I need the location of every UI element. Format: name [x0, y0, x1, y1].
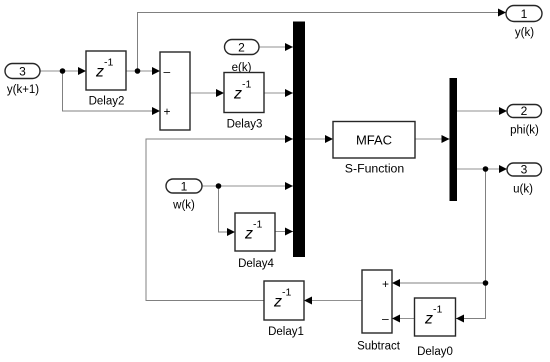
arrowhead into demux [442, 135, 450, 143]
svg-text:w(k): w(k) [172, 200, 195, 212]
svg-text:1: 1 [181, 180, 188, 194]
arrowhead into Delay3 [216, 89, 224, 97]
arrowhead into Delay1 [304, 297, 312, 305]
wire sum output to Delay3 [190, 92, 224, 94]
output port 2 [507, 104, 542, 137]
svg-text:Delay2: Delay2 [89, 96, 125, 108]
wire Delay0 output to Subtract minus input [392, 318, 415, 320]
arrowhead into mux input 2 [285, 89, 293, 97]
wire feedback from Delay1 output up to mux [146, 139, 293, 301]
svg-text:z: z [273, 294, 282, 311]
wire Delay4 output to mux [275, 231, 293, 233]
wire top feed from node B to output port 1 [138, 13, 507, 72]
svg-text:z: z [244, 226, 253, 243]
wire Delay3 output to mux [264, 92, 293, 94]
output port 1 [506, 6, 542, 40]
arrowhead into mux input 1 [285, 43, 293, 51]
svg-text:MFAC: MFAC [356, 133, 392, 148]
unit delay Delay2 [86, 51, 126, 108]
output port 3 [507, 163, 542, 196]
node C junction dot [216, 183, 222, 189]
svg-text:–: – [164, 65, 171, 79]
svg-text:Delay1: Delay1 [268, 326, 304, 338]
arrowhead into Subtract minus [392, 315, 400, 323]
wire input 2 to mux [259, 46, 293, 48]
node A junction dot [60, 68, 66, 74]
svg-text:-1: -1 [282, 287, 291, 299]
svg-text:-1: -1 [104, 57, 113, 69]
unit delay Delay0 [415, 298, 456, 358]
wire demux to output port 3 [457, 168, 507, 170]
wire Delay2 output to sum minus input [126, 70, 160, 72]
svg-text:3: 3 [19, 65, 26, 79]
arrowhead into mux input 3 [285, 135, 293, 143]
svg-text:-1: -1 [242, 79, 251, 91]
wire input 1 w(k) to mux [202, 185, 293, 187]
svg-text:u(k): u(k) [513, 184, 533, 196]
arrowhead into MFAC [325, 135, 333, 143]
wire branch down from node C to Delay4 input [219, 186, 236, 232]
svg-text:Delay0: Delay0 [417, 346, 453, 358]
svg-text:+: + [382, 277, 389, 291]
arrowhead into output port 2 [499, 107, 507, 115]
arrowhead into output port 1 [498, 9, 506, 17]
svg-text:-1: -1 [433, 304, 442, 316]
svg-text:2: 2 [521, 104, 528, 118]
svg-text:Subtract: Subtract [357, 341, 401, 353]
arrowhead into mux input 4 [285, 182, 293, 190]
wire Subtract output to Delay1 input [304, 300, 362, 302]
arrowhead into Delay2 [78, 67, 86, 75]
unit delay Delay1 [264, 281, 304, 338]
mux Mux1 [293, 22, 305, 258]
input port 3 [5, 64, 40, 97]
svg-text:Delay3: Delay3 [227, 119, 263, 131]
wire demux to output port 2 [457, 110, 507, 112]
arrowhead into Subtract plus [392, 279, 400, 287]
svg-text:z: z [233, 86, 242, 103]
unit delay Delay4 [235, 213, 275, 270]
sum block Sum1 [160, 52, 190, 130]
node D junction dot [483, 166, 489, 172]
arrowhead into sum minus [152, 67, 160, 75]
arrowhead into mux input 5 [285, 228, 293, 236]
demux Demux1 [450, 78, 458, 201]
svg-text:+: + [164, 105, 171, 119]
node B junction dot [135, 68, 141, 74]
svg-text:1: 1 [521, 7, 528, 21]
svg-text:z: z [424, 311, 433, 328]
wire branch down from node D to Subtract plus input [392, 169, 486, 283]
svg-text:y(k+1): y(k+1) [7, 84, 39, 96]
svg-text:3: 3 [521, 163, 528, 177]
unit delay Delay3 [224, 73, 264, 131]
input port 1 [166, 179, 202, 212]
s-function block MFAC [333, 122, 415, 176]
sum block Subtract [357, 270, 401, 353]
arrowhead into Delay4 [227, 228, 235, 236]
svg-text:2: 2 [238, 41, 245, 55]
wire branch down from node A to sum plus input [63, 71, 161, 111]
svg-text:z: z [95, 64, 104, 81]
wire from input 3 to Delay2 [40, 70, 86, 72]
input port 2 [225, 40, 260, 75]
wire mux output to MFAC [305, 138, 333, 140]
arrowhead into output port 3 [499, 165, 507, 173]
arrowhead into sum plus [152, 107, 160, 115]
svg-text:Delay4: Delay4 [238, 258, 274, 270]
svg-text:phi(k): phi(k) [510, 125, 539, 137]
wire branch down from node E to Delay0 input [456, 283, 486, 319]
svg-text:-1: -1 [253, 219, 262, 231]
wire MFAC output to demux [415, 138, 450, 140]
svg-text:S-Function: S-Function [345, 162, 405, 176]
svg-text:y(k): y(k) [515, 27, 534, 39]
node E junction dot [483, 280, 489, 286]
arrowhead into Delay0 [456, 315, 464, 323]
svg-text:–: – [382, 312, 389, 326]
